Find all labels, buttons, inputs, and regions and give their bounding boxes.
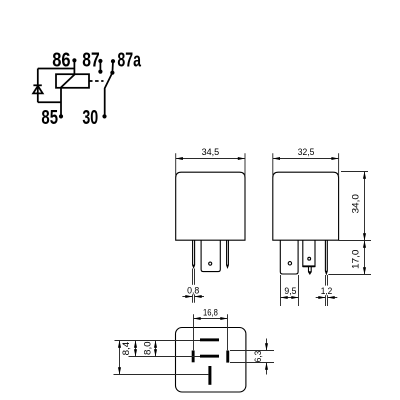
- svg-text:87: 87: [82, 50, 99, 72]
- svg-text:30: 30: [82, 107, 98, 129]
- svg-text:17,0: 17,0: [351, 250, 362, 270]
- svg-text:9,5: 9,5: [284, 286, 296, 297]
- svg-text:85: 85: [41, 107, 58, 129]
- svg-text:34,5: 34,5: [202, 147, 220, 158]
- svg-text:34,0: 34,0: [351, 194, 362, 214]
- svg-text:6,3: 6,3: [253, 351, 264, 363]
- svg-text:86: 86: [52, 50, 70, 72]
- svg-text:8,0: 8,0: [142, 341, 153, 355]
- svg-text:32,5: 32,5: [298, 147, 315, 158]
- svg-text:8,4: 8,4: [121, 342, 132, 356]
- svg-text:87a: 87a: [117, 50, 141, 72]
- svg-text:1,2: 1,2: [321, 286, 333, 297]
- svg-text:16,8: 16,8: [203, 307, 218, 318]
- svg-text:0,8: 0,8: [187, 286, 199, 297]
